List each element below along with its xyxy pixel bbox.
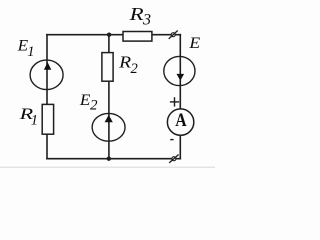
svg-text:E: E	[188, 35, 200, 52]
svg-text:R: R	[128, 4, 143, 24]
svg-text:1: 1	[31, 112, 38, 128]
svg-text:3: 3	[142, 11, 151, 28]
svg-text:2: 2	[90, 98, 98, 114]
svg-text:E: E	[79, 92, 91, 109]
svg-text:2: 2	[131, 61, 138, 77]
svg-text:1: 1	[27, 44, 34, 60]
svg-text:A: A	[175, 111, 187, 131]
svg-text:R: R	[118, 52, 131, 71]
